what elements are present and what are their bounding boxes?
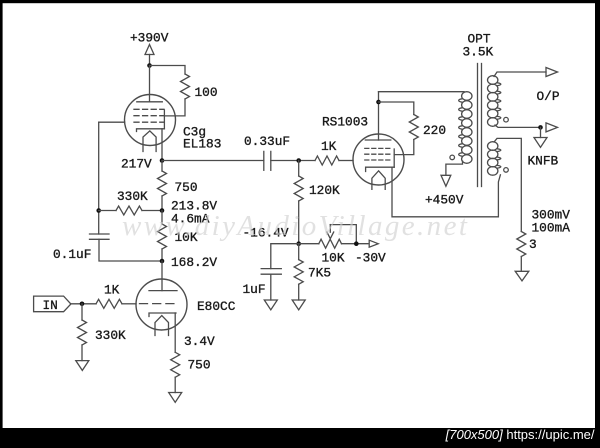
svg-text:1K: 1K	[104, 283, 120, 298]
node -30V arrow	[369, 240, 378, 247]
wire grid node to 120K	[298, 161, 300, 177]
wire V1 grid to left rail	[99, 121, 125, 123]
svg-text:1K: 1K	[321, 139, 337, 154]
resistor 3 sense	[517, 232, 526, 257]
wire input node down	[81, 304, 83, 320]
V1 grid g1	[134, 108, 164, 110]
svg-text:168.2V: 168.2V	[171, 255, 217, 270]
svg-text:750: 750	[175, 180, 198, 195]
junction dot 217V node	[160, 158, 165, 163]
V1 heater	[143, 131, 156, 152]
svg-text:RS1003: RS1003	[322, 115, 368, 130]
V1 cathode	[137, 129, 165, 132]
junction dot O/P common	[538, 125, 543, 130]
wire V3 plate up	[378, 92, 380, 140]
wire to resistor 330K upper	[99, 210, 116, 212]
svg-text:330K: 330K	[95, 328, 126, 343]
OPT KNFB winding	[488, 142, 498, 176]
wire 217V to R 750	[161, 161, 163, 172]
V3 heater	[372, 171, 385, 190]
junction dot input node	[80, 302, 85, 307]
ground 1uF	[264, 300, 277, 310]
svg-text:10K: 10K	[322, 251, 345, 266]
OPT primary winding	[462, 92, 472, 164]
junction dot plate node	[376, 100, 381, 105]
pentode V1 C3g EL183 envelope	[125, 95, 176, 146]
wire 1K to V3 grid	[339, 160, 353, 162]
junction dot 168.2V node	[160, 259, 165, 264]
svg-text:-30V: -30V	[355, 251, 386, 266]
svg-text:E80CC: E80CC	[197, 299, 236, 314]
V3 grid g1	[365, 147, 390, 149]
resistor 330K input	[78, 320, 87, 345]
svg-text:220: 220	[423, 123, 446, 138]
capacitor 0.1uF	[90, 234, 110, 239]
svg-text:0.33uF: 0.33uF	[244, 134, 290, 149]
wire bias node to 1uF	[271, 244, 299, 269]
V3 plate	[365, 139, 391, 141]
svg-text:IN: IN	[43, 298, 58, 313]
svg-text:www.diyAudioVillage.net: www.diyAudioVillage.net	[122, 210, 469, 242]
wire R750 to 213.8V node	[161, 196, 163, 211]
capacitor 1uF	[261, 269, 281, 275]
transformer OPT core line 1	[477, 64, 479, 187]
resistor 10K	[158, 224, 167, 249]
svg-text:+390V: +390V	[130, 31, 169, 46]
resistor 220	[409, 115, 418, 140]
wire bias node to pot	[299, 243, 319, 245]
svg-text:100: 100	[195, 85, 218, 100]
junction dot pot output	[354, 241, 359, 246]
svg-text:EL183: EL183	[183, 137, 221, 152]
wire 10K to 168.2V node	[161, 249, 163, 261]
wire 7K5 to ground	[298, 284, 300, 300]
wire 0.1uF to 168.2V node	[99, 239, 162, 261]
wire V2 cathode down	[174, 313, 176, 352]
polarity dot secondary	[504, 117, 509, 122]
svg-text:O/P: O/P	[537, 89, 560, 104]
wire 220 to V3 screen	[394, 140, 414, 155]
svg-text:7K5: 7K5	[308, 266, 331, 281]
V1 screen bracket	[163, 110, 165, 129]
node +450V arrow	[441, 175, 451, 186]
resistor 7K5	[294, 260, 303, 285]
wire 120K to bias node	[298, 201, 300, 244]
svg-text:[700x500] https://upic.me/: [700x500] https://upic.me/	[445, 427, 595, 442]
wire V3 cathode to KNFB winding	[392, 167, 500, 217]
wire 330K to ground	[81, 345, 83, 361]
svg-text:330K: 330K	[117, 189, 148, 204]
wire 3 to ground	[520, 257, 522, 272]
svg-text:217V: 217V	[121, 157, 152, 172]
OPT secondary crossover bumps	[498, 83, 501, 119]
node O/P output arrow	[546, 68, 558, 77]
wire left rail down	[98, 122, 100, 234]
pentode V3 RS1003 envelope	[353, 134, 404, 185]
svg-text:3: 3	[529, 237, 537, 252]
V3 cathode	[366, 167, 395, 171]
wire V1 cathode to 217V node	[161, 129, 163, 161]
wire pot to -30V arrow	[342, 243, 369, 245]
OPT primary bottom lead to +450V	[446, 161, 463, 175]
wire R 100 to V1 screen grid	[164, 99, 185, 116]
wire to R 10K	[161, 211, 163, 225]
svg-text:3.4V: 3.4V	[184, 334, 215, 349]
wire common to ground	[540, 127, 542, 137]
capacitor 0.33uF	[264, 151, 271, 170]
wire 217V node to C 0.33uF	[162, 160, 264, 162]
svg-text:120K: 120K	[309, 183, 340, 198]
ground O/P common	[534, 138, 547, 148]
wire +390V node to V1 plate	[149, 66, 151, 102]
node +390V supply arrow	[145, 45, 154, 64]
wire 1K to V2 grid	[122, 303, 136, 305]
node O/P return arrow	[546, 123, 558, 132]
V2 cathode	[149, 313, 176, 317]
polarity dot primary	[450, 155, 455, 160]
pot wiper tie wire	[330, 225, 356, 244]
svg-text:+450V: +450V	[425, 193, 464, 208]
junction dot +390V node	[147, 63, 152, 68]
wire +390V node to R 100	[150, 66, 186, 75]
V2 grid	[140, 303, 177, 305]
V2 plate	[149, 290, 177, 292]
junction dot RS grid node	[296, 158, 301, 163]
triode V2 E80CC envelope	[136, 279, 187, 330]
ground V2 cathode	[169, 393, 182, 403]
ground 7K5	[292, 300, 305, 310]
wire bias node to 7K5	[298, 244, 300, 260]
OPT primary crossover bumps	[459, 99, 462, 156]
wire 1uF to ground	[270, 274, 272, 300]
wire 330K to 213.8V node	[142, 210, 162, 212]
svg-text:1uF: 1uF	[243, 282, 266, 297]
wire 168.2V node to V2 plate	[161, 261, 163, 291]
V1 grid g3	[134, 121, 164, 123]
wire O/P bottom to common	[495, 125, 541, 127]
resistor 1K grid RS1003	[315, 156, 339, 165]
OPT KNFB crossover bumps	[498, 149, 501, 168]
resistor 750 cathode V2	[171, 352, 180, 377]
wire plate node to R 220	[379, 102, 414, 115]
resistor 330K upper	[116, 206, 142, 215]
OPT secondary winding O/P	[488, 76, 498, 127]
svg-text:100mA: 100mA	[532, 221, 571, 236]
V3 grid g3	[365, 159, 390, 161]
resistor 120K	[294, 176, 303, 201]
svg-text:3.5K: 3.5K	[463, 45, 494, 60]
V3 screen bracket	[393, 149, 395, 167]
polarity dot KNFB	[504, 168, 509, 173]
V1 grid g2	[134, 115, 164, 117]
wire KNFB top to sense resistor	[494, 138, 521, 231]
ground sense resistor	[515, 271, 529, 281]
resistor 1K grid stopper	[96, 299, 122, 308]
V1 plate	[137, 101, 163, 103]
svg-text:KNFB: KNFB	[528, 154, 559, 169]
junction dot 213.8V node	[160, 208, 165, 213]
wire O/P top to arrow	[494, 72, 546, 77]
node IN tag	[34, 296, 71, 312]
resistor 750 cathode V1	[158, 171, 167, 196]
wire plate node to OPT primary	[379, 91, 465, 93]
svg-text:0.1uF: 0.1uF	[53, 247, 91, 262]
wire IN to grid	[71, 303, 96, 305]
resistor 100	[181, 74, 190, 99]
V2 heater	[155, 316, 169, 336]
junction dot grid rail	[96, 208, 101, 213]
wire 0.33uF to grid node	[271, 160, 315, 162]
potentiometer 10K body	[319, 239, 342, 248]
transformer OPT core line 2	[481, 64, 483, 187]
pot wiper arrow	[327, 225, 334, 239]
wire 750 to ground	[174, 377, 176, 392]
svg-text:750: 750	[188, 358, 211, 373]
ground input	[76, 361, 89, 371]
V3 grid g2	[365, 153, 390, 155]
junction dot bias node -16.4V	[296, 241, 301, 246]
